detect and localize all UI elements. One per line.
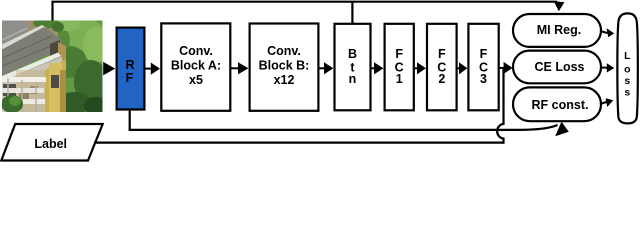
svg-text:1: 1 xyxy=(396,72,403,86)
svg-text:RF const.: RF const. xyxy=(532,98,589,112)
svg-text:Label: Label xyxy=(34,137,67,151)
arrow RF const to Loss xyxy=(600,102,607,104)
block Conv B xyxy=(250,24,319,111)
svg-text:F: F xyxy=(395,47,403,61)
arrow CE Loss to Loss xyxy=(600,67,608,69)
svg-text:Block A:: Block A: xyxy=(171,59,221,73)
dirt patch top middle xyxy=(26,21,58,42)
yellow wall xyxy=(45,59,66,112)
svg-text:CE Loss: CE Loss xyxy=(534,60,584,74)
parallelogram Label xyxy=(1,124,102,161)
arrow MI Reg to Loss xyxy=(600,31,608,33)
svg-text:o: o xyxy=(624,64,630,76)
arrow into MI Reg top xyxy=(554,1,565,11)
svg-text:3: 3 xyxy=(480,72,487,86)
wire Label to CE Loss riser (wire B) xyxy=(94,142,504,144)
wire RF box bottom to RF const (wire A) xyxy=(130,111,558,130)
ridge highlight strip xyxy=(2,25,46,50)
bushes on dirt xyxy=(33,18,59,29)
svg-text:L: L xyxy=(624,50,631,62)
attic dark under roof tip xyxy=(50,40,60,58)
block RF (blue) xyxy=(117,28,145,110)
arrow photo to RF xyxy=(103,62,115,75)
stadium RF const xyxy=(513,87,601,121)
bush bottom-left xyxy=(1,95,23,113)
svg-text:F: F xyxy=(480,47,488,61)
svg-text:2: 2 xyxy=(438,72,445,86)
block FC1 xyxy=(385,24,414,111)
wire: riser from top wire down into Btn top xyxy=(351,2,353,24)
facade base xyxy=(2,57,62,112)
arrow into CE Loss xyxy=(504,62,513,74)
tan wall right of roof xyxy=(58,42,66,62)
dark windows xyxy=(3,84,16,96)
under-eave shadow xyxy=(2,56,62,85)
svg-text:Block B:: Block B: xyxy=(259,59,310,73)
svg-text:Conv.: Conv. xyxy=(179,44,213,58)
block Btn (bottleneck) xyxy=(335,24,371,111)
svg-text:n: n xyxy=(349,72,357,86)
fascia white band xyxy=(2,53,61,82)
path line on dirt xyxy=(29,36,52,43)
top-left upper roof gray xyxy=(2,21,38,51)
svg-text:R: R xyxy=(125,58,134,72)
svg-text:F: F xyxy=(438,47,446,61)
svg-text:x5: x5 xyxy=(189,73,203,87)
svg-text:B: B xyxy=(348,47,357,61)
scaffold bands xyxy=(2,77,46,82)
svg-text:s: s xyxy=(624,75,630,87)
arrow Conv A to Conv B xyxy=(231,67,239,69)
arrow Btn to FC1 xyxy=(371,67,376,69)
svg-text:Conv.: Conv. xyxy=(267,44,301,58)
stadium MI Reg xyxy=(513,14,601,47)
arrow FC2 to FC3 xyxy=(457,67,460,69)
svg-text:x12: x12 xyxy=(274,73,295,87)
arrow up into RF const bottom xyxy=(555,122,569,137)
block Conv A xyxy=(161,23,230,110)
terminal Loss (vertical ellipse) xyxy=(617,13,638,123)
stadium CE Loss xyxy=(513,51,601,84)
svg-text:s: s xyxy=(624,87,630,99)
wire FC3 to CE Loss xyxy=(499,67,505,69)
riser with hop over wire A xyxy=(497,68,503,144)
block FC2 xyxy=(427,24,457,111)
arrow Conv B to Btn xyxy=(318,67,325,69)
arrow FC1 to FC2 xyxy=(414,67,418,69)
block FC3 xyxy=(468,24,498,111)
svg-text:F: F xyxy=(126,71,134,85)
wire: photo top to MI Reg (top horizontal) xyxy=(53,2,558,21)
input photo (house with scaffolding and trees) xyxy=(1,17,109,115)
arrow RF to Conv A xyxy=(146,68,153,70)
svg-text:MI Reg.: MI Reg. xyxy=(537,23,581,37)
main roof plane xyxy=(2,27,62,76)
